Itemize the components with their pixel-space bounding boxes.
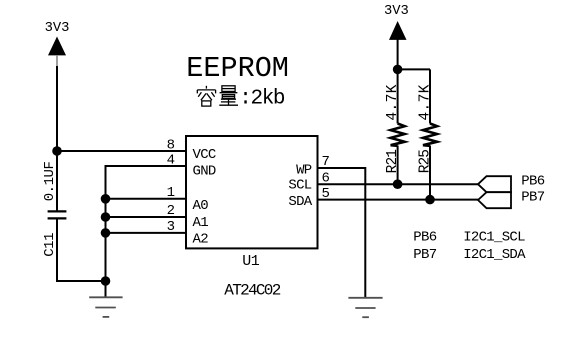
svg-text:I2C1_SDA: I2C1_SDA [463, 247, 526, 263]
svg-text:PB6: PB6 [521, 174, 544, 190]
svg-text:A0: A0 [193, 198, 209, 214]
svg-text:R25: R25 [418, 150, 434, 174]
svg-text:A1: A1 [193, 215, 209, 231]
svg-text:PB7: PB7 [521, 189, 544, 205]
svg-text:4: 4 [167, 153, 175, 169]
svg-text:AT24C02: AT24C02 [224, 282, 280, 300]
svg-text:4.7K: 4.7K [418, 84, 434, 120]
svg-text:SCL: SCL [288, 178, 311, 194]
svg-text:A2: A2 [193, 231, 209, 247]
svg-text:0.1UF: 0.1UF [42, 161, 58, 201]
svg-text:GND: GND [193, 164, 216, 180]
svg-text:EEPROM: EEPROM [186, 52, 289, 85]
svg-text:R21: R21 [385, 150, 401, 174]
svg-text:PB6: PB6 [413, 230, 436, 246]
svg-text:C11: C11 [42, 233, 58, 257]
svg-text:4.7K: 4.7K [385, 84, 401, 120]
svg-text:WP: WP [296, 163, 312, 179]
svg-text:3V3: 3V3 [384, 4, 409, 19]
svg-text:VCC: VCC [193, 147, 216, 163]
svg-text:3V3: 3V3 [45, 21, 70, 36]
svg-text:8: 8 [167, 137, 175, 153]
svg-text:1: 1 [167, 185, 175, 201]
svg-text:U1: U1 [242, 253, 259, 270]
svg-text:PB7: PB7 [413, 247, 436, 263]
svg-text:SDA: SDA [288, 194, 312, 210]
svg-text:I2C1_SCL: I2C1_SCL [463, 230, 525, 246]
svg-text::2kb: :2kb [239, 87, 285, 110]
svg-text:2: 2 [167, 203, 175, 219]
svg-text:3: 3 [167, 219, 175, 235]
